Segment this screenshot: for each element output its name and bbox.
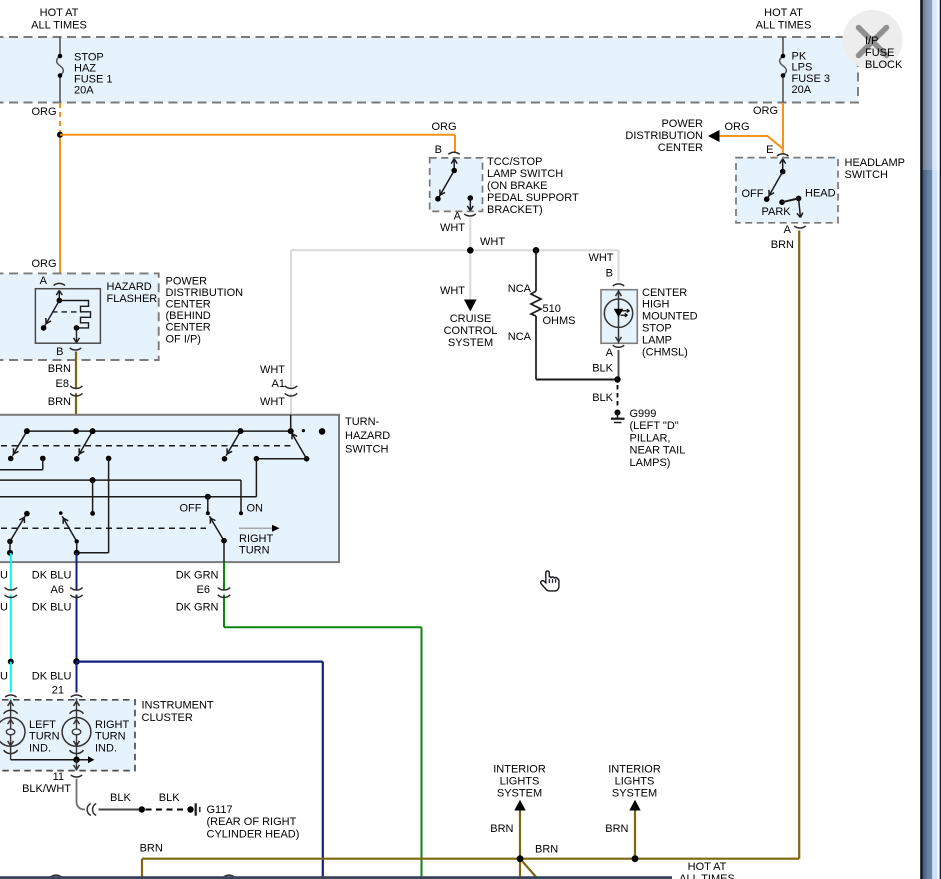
svg-text:DK GRN: DK GRN [176,602,219,614]
svg-text:SYSTEM: SYSTEM [448,337,493,349]
svg-text:OFF: OFF [742,188,764,200]
svg-text:I/P: I/P [865,35,878,47]
svg-text:POWER: POWER [166,275,208,287]
svg-text:RIGHT: RIGHT [95,719,130,731]
svg-text:OFF: OFF [180,503,202,515]
svg-text:BLK: BLK [159,792,180,804]
svg-text:CENTER: CENTER [166,299,211,311]
svg-text:POWER: POWER [661,118,703,130]
svg-text:CLUSTER: CLUSTER [142,712,193,724]
svg-text:WHT: WHT [480,236,505,248]
svg-text:BLK: BLK [110,792,131,804]
svg-text:BRN: BRN [605,823,628,835]
svg-text:INTERIOR: INTERIOR [493,764,546,776]
svg-text:NEAR TAIL: NEAR TAIL [630,445,686,457]
svg-text:A: A [40,275,48,287]
svg-text:(CHMSL): (CHMSL) [642,346,688,358]
svg-text:WHT: WHT [440,222,465,234]
svg-text:NCA: NCA [508,331,532,343]
svg-text:STOP: STOP [642,323,672,335]
svg-text:HEADLAMP: HEADLAMP [845,157,906,169]
svg-text:INSTRUMENT: INSTRUMENT [142,700,214,712]
svg-text:PILLAR,: PILLAR, [630,432,671,444]
svg-text:IND.: IND. [29,742,51,754]
svg-text:A1: A1 [272,378,285,390]
svg-text:U: U [0,670,8,682]
svg-text:A: A [606,347,614,359]
svg-text:TURN-: TURN- [345,416,380,428]
svg-text:BRN: BRN [771,239,794,251]
svg-text:LAMP SWITCH: LAMP SWITCH [487,168,563,180]
svg-text:CYLINDER HEAD): CYLINDER HEAD) [207,829,300,841]
svg-text:E6: E6 [197,584,210,596]
svg-text:CENTER: CENTER [658,142,703,154]
svg-text:SWITCH: SWITCH [845,169,888,181]
svg-text:HAZARD: HAZARD [107,281,152,293]
svg-text:BRACKET): BRACKET) [487,204,543,216]
svg-text:LAMP: LAMP [642,334,672,346]
svg-text:HEAD: HEAD [805,187,836,199]
svg-text:HOT AT: HOT AT [40,7,79,19]
svg-text:E8: E8 [56,378,69,390]
svg-text:RIGHT: RIGHT [239,533,274,545]
svg-text:ALL TIMES: ALL TIMES [31,19,87,31]
svg-text:ORG: ORG [725,121,750,133]
svg-text:B: B [435,144,442,156]
svg-text:ALL TIMES: ALL TIMES [679,873,735,879]
svg-text:HAZARD: HAZARD [345,430,390,442]
svg-text:BLK/WHT: BLK/WHT [22,783,71,795]
svg-text:BRN: BRN [490,823,513,835]
svg-text:(ON BRAKE: (ON BRAKE [487,180,548,192]
svg-text:PARK: PARK [762,206,792,218]
svg-text:LAMPS): LAMPS) [630,457,671,469]
svg-text:PK: PK [792,50,807,62]
svg-text:WHT: WHT [260,364,285,376]
svg-text:OF I/P): OF I/P) [166,333,201,345]
svg-text:BRN: BRN [48,363,71,375]
svg-text:TURN: TURN [95,731,126,743]
svg-text:11: 11 [53,771,64,783]
svg-text:PEDAL SUPPORT: PEDAL SUPPORT [487,192,579,204]
svg-text:ORG: ORG [432,121,457,133]
svg-text:HIGH: HIGH [642,299,670,311]
svg-text:LPS: LPS [792,62,813,74]
svg-text:BLK: BLK [592,392,613,404]
svg-text:TCC/STOP: TCC/STOP [487,156,542,168]
svg-text:20A: 20A [792,84,812,96]
svg-text:BRN: BRN [48,396,71,408]
svg-text:A: A [784,224,792,236]
svg-text:A: A [454,210,462,222]
svg-text:20A: 20A [74,84,94,96]
svg-text:U: U [0,602,8,614]
svg-text:U: U [0,570,8,582]
svg-text:B: B [606,267,613,279]
svg-text:MOUNTED: MOUNTED [642,311,698,323]
svg-text:DK BLU: DK BLU [32,570,72,582]
svg-text:21: 21 [52,685,64,697]
svg-text:TURN: TURN [29,731,60,743]
svg-text:INTERIOR: INTERIOR [608,764,661,776]
svg-text:CONTROL: CONTROL [444,325,498,337]
svg-text:HOT AT: HOT AT [764,7,803,19]
svg-text:CENTER: CENTER [166,322,211,334]
svg-text:BLK: BLK [592,362,613,374]
svg-text:(LEFT "D": (LEFT "D" [630,420,679,432]
svg-text:510: 510 [543,303,561,315]
svg-text:SYSTEM: SYSTEM [497,788,542,800]
svg-text:WHT: WHT [440,285,465,297]
svg-text:ORG: ORG [31,258,56,270]
svg-text:SYSTEM: SYSTEM [612,788,657,800]
svg-text:SWITCH: SWITCH [345,444,388,456]
svg-text:FUSE 3: FUSE 3 [792,73,831,85]
svg-text:ALL TIMES: ALL TIMES [756,19,812,31]
svg-text:OHMS: OHMS [543,315,576,327]
svg-text:DK GRN: DK GRN [176,570,219,582]
svg-text:ON: ON [247,503,264,515]
svg-text:CENTER: CENTER [642,287,687,299]
svg-text:FUSE: FUSE [865,47,894,59]
svg-text:(REAR OF RIGHT: (REAR OF RIGHT [207,816,297,828]
svg-text:BRN: BRN [535,844,558,856]
svg-text:CRUISE: CRUISE [450,313,492,325]
svg-text:DK BLU: DK BLU [32,670,72,682]
svg-text:LIGHTS: LIGHTS [500,776,540,788]
svg-text:BLOCK: BLOCK [865,59,903,71]
svg-text:HOT AT: HOT AT [688,861,727,873]
svg-text:A6: A6 [51,584,64,596]
svg-text:B: B [56,346,63,358]
svg-text:ORG: ORG [31,106,56,118]
svg-text:NCA: NCA [508,283,532,295]
svg-text:WHT: WHT [260,396,285,408]
svg-text:IND.: IND. [95,742,117,754]
svg-text:E: E [766,144,773,156]
svg-text:BRN: BRN [140,843,163,855]
svg-text:TURN: TURN [239,545,270,557]
svg-text:DISTRIBUTION: DISTRIBUTION [625,130,703,142]
svg-text:FLASHER: FLASHER [107,293,158,305]
svg-text:G999: G999 [630,408,657,420]
svg-text:DK BLU: DK BLU [32,602,72,614]
svg-text:G117: G117 [207,804,233,816]
svg-text:(BEHIND: (BEHIND [166,310,211,322]
svg-text:DISTRIBUTION: DISTRIBUTION [166,287,244,299]
svg-text:ORG: ORG [753,105,778,117]
svg-text:WHT: WHT [588,252,613,264]
svg-text:LIGHTS: LIGHTS [615,776,655,788]
svg-text:LEFT: LEFT [29,719,56,731]
